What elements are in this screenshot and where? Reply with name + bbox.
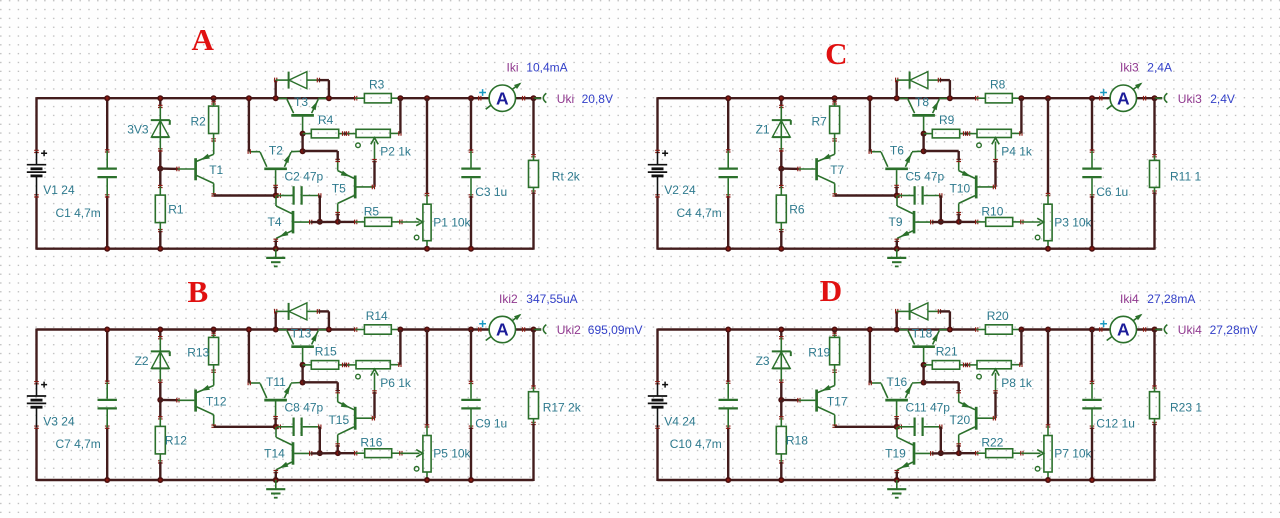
junction ground node (D) [894,477,900,483]
junction emitter node (B) [300,380,306,386]
junction T3 base node (A) [300,131,306,137]
svg-text:P4 1k: P4 1k [1001,145,1033,159]
wire C3 top (B) [470,330,472,383]
junction mid node (A) [273,193,279,199]
wire P1 vertical (B) [426,330,428,426]
ground (C) [887,249,906,267]
diode over T13 [275,303,320,320]
junction C3 top (C) [1089,95,1095,101]
resistor R19 [808,330,839,373]
svg-text:R21: R21 [936,344,958,358]
svg-text:C: C [825,36,847,71]
svg-text:20,8V: 20,8V [582,92,613,106]
transistor T16 [869,375,924,419]
wire ammeter to node (B) [515,328,541,330]
label C7 4,7m [55,437,100,451]
wire to cap C7 4,7m (B) [106,330,108,481]
wire R4 to pot (C) [965,132,969,134]
wire to zener (B) [159,330,161,400]
wire T1 collector to node (D) [835,426,897,428]
resistor R8 [976,78,1023,103]
junction ground node (C) [894,246,900,252]
wire left vertical lower (C) [656,196,658,250]
label Uki reading [557,92,613,106]
svg-text:R2: R2 [191,114,207,128]
wire diode left (D) [896,311,898,329]
resistor R13 [187,330,218,373]
wire left vertical (A) [35,97,37,151]
wire T2 collector up (A) [248,98,250,151]
junction ground node (B) [273,477,279,483]
junction diode left rail (C) [894,95,900,101]
wire T5 emitter to node (B) [303,382,338,391]
ammeter Iki4 [1100,314,1146,343]
wire T4 emitter down (A) [275,240,277,248]
svg-text:10,4mA: 10,4mA [526,61,567,75]
wire Rt top (A) [532,98,534,156]
junction zener node (C) [778,166,784,172]
wire bottom rail (B) [37,479,534,481]
wire C2 right down (C) [940,196,942,222]
svg-text:P7 10k: P7 10k [1054,447,1092,461]
junction T5 collector node (B) [335,450,341,456]
resistor R21 [924,344,966,369]
transistor T7 [798,140,845,196]
wire left vertical lower (B) [35,427,37,481]
wire top rail (C) [658,97,977,99]
junction output node (C) [1152,95,1158,101]
wire zener node to T base (C) [781,167,799,170]
transistor T9 [888,196,932,242]
wire top rail (B) [37,328,356,330]
wire T5 emitter to node (A) [303,151,338,160]
capacitor C3 1u [461,150,507,199]
wire T2 base down (A) [274,186,276,195]
svg-text:V1 24: V1 24 [43,183,75,197]
transistor T10 [949,159,995,214]
resistor R17 2k [529,386,582,425]
ground (A) [266,249,285,267]
svg-text:347,55uA: 347,55uA [526,292,577,306]
wire T3 base node down (C) [922,134,924,152]
svg-text:R11 1: R11 1 [1170,169,1201,183]
wire C3 top (A) [470,98,472,151]
wire T5 emitter to node (C) [924,151,959,160]
zener diode Z1 [756,105,791,151]
capacitor C9 1u [461,381,507,430]
svg-text:R13: R13 [187,346,209,360]
wire Rt top (B) [532,330,534,388]
junction C3 bottom (D) [1089,477,1095,483]
svg-text:T19: T19 [885,447,906,461]
svg-text:R23 1: R23 1 [1170,401,1202,415]
wire T2 collector up (C) [869,98,871,151]
junction output node (B) [531,327,537,333]
wire diode left (B) [275,311,277,329]
transistor T1 [177,140,224,196]
capacitor C11 47p [898,401,950,436]
wire bottom rail (D) [658,479,1155,481]
junction diode left rail (D) [894,327,900,333]
wire zener node to T base (A) [160,167,178,170]
junction zener top (B) [157,327,163,333]
wire ammeter to node (C) [1136,97,1162,99]
svg-text:A: A [496,88,509,108]
junction P1 bottom (D) [1045,477,1051,483]
capacitor C1 4,7m [98,150,117,197]
svg-text:P3 10k: P3 10k [1054,215,1092,229]
resistor R15 [303,344,345,369]
wire T5 collector down (B) [337,445,339,453]
capacitor C12 1u [1082,381,1135,430]
wire C2 right down (A) [319,196,321,222]
svg-text:R18: R18 [786,434,808,448]
wire Rt top (C) [1153,98,1155,156]
junction C2 node (C) [938,219,944,225]
svg-text:C12 1u: C12 1u [1096,417,1135,431]
wire Rt bottom (A) [532,192,534,250]
resistor R14 [355,309,402,334]
potentiometer P8 1k [968,361,1033,393]
junction P1 top (B) [424,327,430,333]
svg-text:C1 4,7m: C1 4,7m [55,206,100,220]
diode over T8 [896,72,941,89]
svg-text:R1: R1 [168,202,184,216]
svg-text:R9: R9 [939,113,955,127]
wire pot right up (D) [1020,330,1022,365]
wire zener node to T base (D) [781,399,799,402]
wire R4 to pot (B) [344,364,348,366]
junction zener node (D) [778,397,784,403]
wire bottom rail (C) [658,247,1155,249]
svg-text:2,4A: 2,4A [1147,61,1172,75]
ammeter Iki3 [1100,83,1146,112]
junction R1 bottom (D) [778,477,784,483]
svg-text:T1: T1 [209,163,223,177]
junction top C (D) [725,327,731,333]
svg-text:R8: R8 [990,78,1006,92]
svg-text:V3 24: V3 24 [43,415,75,429]
junction emitter node (A) [300,148,306,154]
svg-text:B: B [188,274,209,309]
wire C3 bottom (D) [1091,427,1093,480]
junction R3 right (B) [397,327,403,333]
svg-text:T3: T3 [294,95,308,109]
svg-text:R5: R5 [364,204,380,218]
wire to cap C10 4,7m (D) [727,330,729,481]
transistor T5 [332,159,375,214]
wire diode left (C) [896,80,898,98]
wire top rail (A) [37,97,356,99]
junction emitter node (D) [921,380,927,386]
ground (B) [266,480,285,498]
junction diode left rail (B) [273,327,279,333]
resistor R4 [303,113,345,138]
junction emitter node (C) [921,148,927,154]
junction mid node (D) [894,424,900,430]
wire T1 collector to node (B) [214,426,276,428]
diode over T18 [896,303,941,320]
wire pot wiper down (A) [374,161,375,187]
resistor R16 [355,436,402,458]
wire R4 to pot (A) [344,132,348,134]
svg-text:R10: R10 [981,204,1003,218]
label Uki4 reading [1178,323,1258,337]
svg-text:T14: T14 [264,447,285,461]
wire T2 base down (D) [895,418,897,427]
wire T5 emitter to node (D) [924,382,959,391]
svg-text:C3 1u: C3 1u [475,185,507,199]
wire C3 bottom (C) [1091,196,1093,249]
junction R2 top (B) [211,327,217,333]
output terminal (A) [534,93,547,102]
junction R3 right (C) [1018,95,1024,101]
junction T5 collector node (D) [956,450,962,456]
wire R5 to P1 wiper (D) [1022,450,1044,458]
wire left vertical lower (D) [656,427,658,481]
svg-text:P2 1k: P2 1k [380,145,412,159]
svg-text:Z3: Z3 [756,354,770,368]
zener diode Z2 [135,337,170,383]
svg-text:Z2: Z2 [135,354,149,368]
svg-text:C10 4,7m: C10 4,7m [670,437,722,451]
wire left vertical (D) [656,329,658,383]
wire P1 vertical (A) [426,98,428,194]
junction T5 collector node (C) [956,219,962,225]
transistor T14 [264,427,312,473]
resistor R2 [191,98,219,141]
ammeter Iki [479,83,525,112]
wire left vertical lower (A) [35,196,37,250]
junction C3 top (D) [1089,327,1095,333]
junction zener top (C) [778,95,784,101]
svg-text:P8 1k: P8 1k [1001,376,1033,390]
label Iki4 reading [1120,292,1195,306]
svg-text:R4: R4 [318,113,334,127]
wire to cap C4 4,7m (C) [727,98,729,249]
resistor R20 [976,309,1023,334]
wire T4 emitter down (B) [275,472,277,480]
svg-text:R3: R3 [369,78,385,92]
junction R1 bottom (B) [157,477,163,483]
svg-text:R6: R6 [789,202,805,216]
junction diode right rail (C) [947,95,953,101]
junction diode right rail (B) [326,327,332,333]
svg-text:Uki3: Uki3 [1178,92,1202,106]
junction mid node (B) [273,424,279,430]
junction zener top (D) [778,327,784,333]
wire C2 right down (B) [319,427,321,453]
label C10 4,7m [670,437,722,451]
junction R1 bottom (C) [778,246,784,252]
junction C3 bottom (B) [468,477,474,483]
svg-text:T2: T2 [269,144,283,158]
wire pot right up (C) [1020,98,1022,133]
potentiometer P2 1k [347,129,412,161]
svg-text:27,28mA: 27,28mA [1147,292,1195,306]
junction diode left rail (A) [273,95,279,101]
transistor T19 [885,427,933,473]
resistor R3 [355,78,402,103]
junction R2 top (A) [211,95,217,101]
wire T4 base to node (B) [311,452,338,455]
svg-text:C8 47p: C8 47p [285,401,324,415]
junction output node (A) [531,95,537,101]
wire T4 base to node (A) [311,221,338,224]
potentiometer P3 10k [1035,194,1092,249]
junction diode right rail (A) [326,95,332,101]
junction zener top (A) [157,95,163,101]
svg-text:T18: T18 [912,326,933,340]
diode over T3 [275,72,320,89]
wire T4 emitter down (D) [896,472,898,480]
svg-text:C7 4,7m: C7 4,7m [55,437,100,451]
junction R2 top (D) [832,327,838,333]
svg-text:T5: T5 [332,182,346,196]
junction bottom C (A) [104,246,110,252]
section heading B [188,274,209,309]
junction diode right rail (D) [947,327,953,333]
transistor T8 [898,95,950,134]
svg-text:C11 47p: C11 47p [906,401,951,415]
capacitor C2 47p [277,169,324,204]
output terminal (C) [1155,93,1168,102]
svg-text:C5 47p: C5 47p [906,169,945,183]
svg-text:A: A [192,22,215,57]
potentiometer P7 10k [1035,425,1092,480]
junction T2 collector rail (D) [867,327,873,333]
wire T5 collector down (D) [958,445,960,453]
junction P1 top (A) [424,95,430,101]
wire top rail right of R (B) [400,328,489,330]
svg-text:C2 47p: C2 47p [285,169,324,183]
resistor Rt 2k [529,155,581,194]
svg-text:T8: T8 [915,95,929,109]
svg-text:695,09mV: 695,09mV [588,323,643,337]
svg-text:A: A [1117,320,1130,340]
wire C2 right down (D) [940,427,942,453]
junction C3 top (B) [468,327,474,333]
svg-text:Iki3: Iki3 [1120,61,1139,75]
capacitor C6 1u [1082,150,1128,199]
transistor T11 [248,375,303,419]
wire diode right (D) [939,311,950,329]
zener diode 3V3 [127,105,170,151]
svg-text:T10: T10 [949,182,970,196]
transistor T6 [869,144,924,188]
svg-text:R7: R7 [812,114,828,128]
junction P1 bottom (A) [424,246,430,252]
wire C3 top (D) [1091,330,1093,383]
svg-text:V4 24: V4 24 [664,415,696,429]
capacitor C5 47p [898,169,945,204]
capacitor C4 4,7m [719,150,738,197]
resistor R1 [155,169,184,249]
wire Rt bottom (D) [1153,423,1155,481]
label Iki reading [507,61,568,75]
svg-text:T15: T15 [328,413,349,427]
transistor T17 [798,371,848,427]
svg-text:T13: T13 [291,326,312,340]
junction T3 base node (D) [921,362,927,368]
svg-text:V2 24: V2 24 [664,183,696,197]
svg-text:R16: R16 [360,436,382,450]
wire node to R5 (B) [338,452,356,454]
wire T2 base down (C) [895,186,897,195]
wire top rail right of R (A) [400,97,489,99]
wire Rt bottom (C) [1153,192,1155,250]
battery V1 24 [27,150,75,197]
junction P1 bottom (B) [424,477,430,483]
potentiometer P5 10k [414,425,471,480]
svg-text:Uki4: Uki4 [1178,323,1202,337]
output terminal (D) [1155,325,1168,334]
wire pot wiper down (D) [995,392,996,418]
junction output node (D) [1152,327,1158,333]
wire zener node to T base (B) [160,399,178,402]
svg-text:Z1: Z1 [756,123,770,137]
wire diode left (A) [275,80,277,98]
wire T2 collector up (B) [248,330,250,383]
resistor R11 1 [1150,155,1202,194]
resistor R10 [976,204,1023,226]
svg-text:2,4V: 2,4V [1210,92,1235,106]
wire R5 to P1 wiper (B) [401,450,423,458]
junction P1 bottom (C) [1045,246,1051,252]
label Uki2 reading [557,323,643,337]
label C4 4,7m [676,206,721,220]
label Iki2 reading [499,292,578,306]
section heading A [192,22,215,57]
wire to zener (D) [780,330,782,400]
svg-text:C6 1u: C6 1u [1096,185,1128,199]
wire R4 to pot (D) [965,364,969,366]
potentiometer P4 1k [968,129,1033,161]
svg-text:R22: R22 [981,436,1003,450]
junction T2 collector rail (C) [867,95,873,101]
battery V4 24 [648,382,696,429]
junction C3 bottom (C) [1089,246,1095,252]
wire P1 vertical (C) [1047,98,1049,194]
resistor R12 [155,400,187,480]
wire bottom rail (A) [37,247,534,249]
junction zener node (B) [157,397,163,403]
svg-text:R14: R14 [366,309,388,323]
potentiometer P6 1k [347,361,412,393]
wire node to R5 (D) [959,452,977,454]
label Iki3 reading [1120,61,1172,75]
svg-text:Uki2: Uki2 [557,323,581,337]
svg-text:P1 10k: P1 10k [433,215,471,229]
junction C2 node (D) [938,450,944,456]
junction bottom C (B) [104,477,110,483]
transistor T12 [177,371,227,427]
svg-text:T16: T16 [887,375,908,389]
svg-text:Iki4: Iki4 [1120,292,1139,306]
wire T1 collector to node (A) [214,194,276,196]
wire pot right up (A) [399,98,401,133]
svg-text:T6: T6 [890,144,904,158]
ground (D) [887,480,906,498]
resistor R9 [924,113,966,138]
wire C3 top (C) [1091,98,1093,151]
svg-text:T11: T11 [266,375,286,389]
wire node to R5 (C) [959,221,977,223]
wire top rail right of R (D) [1021,328,1110,330]
resistor R6 [776,169,805,249]
junction C3 top (A) [468,95,474,101]
battery V3 24 [27,382,75,429]
